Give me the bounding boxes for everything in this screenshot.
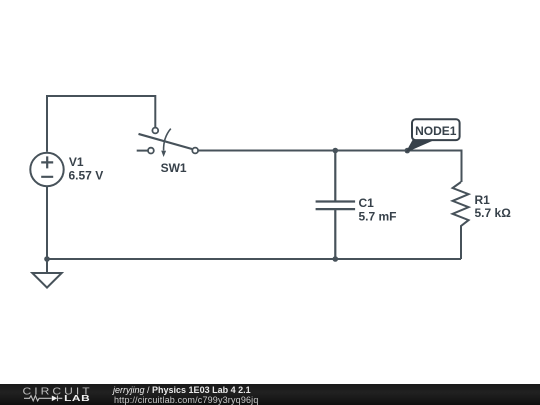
svg-text:5.7 mF: 5.7 mF (359, 210, 397, 224)
svg-text:SW1: SW1 (161, 161, 187, 175)
svg-text:6.57 V: 6.57 V (69, 169, 104, 183)
svg-text:NODE1: NODE1 (415, 124, 457, 138)
svg-text:R1: R1 (475, 193, 491, 207)
svg-text:5.7 kΩ: 5.7 kΩ (475, 206, 512, 220)
svg-text:LAB: LAB (64, 395, 90, 404)
svg-text:C1: C1 (359, 196, 375, 210)
svg-text:V1: V1 (69, 155, 84, 169)
